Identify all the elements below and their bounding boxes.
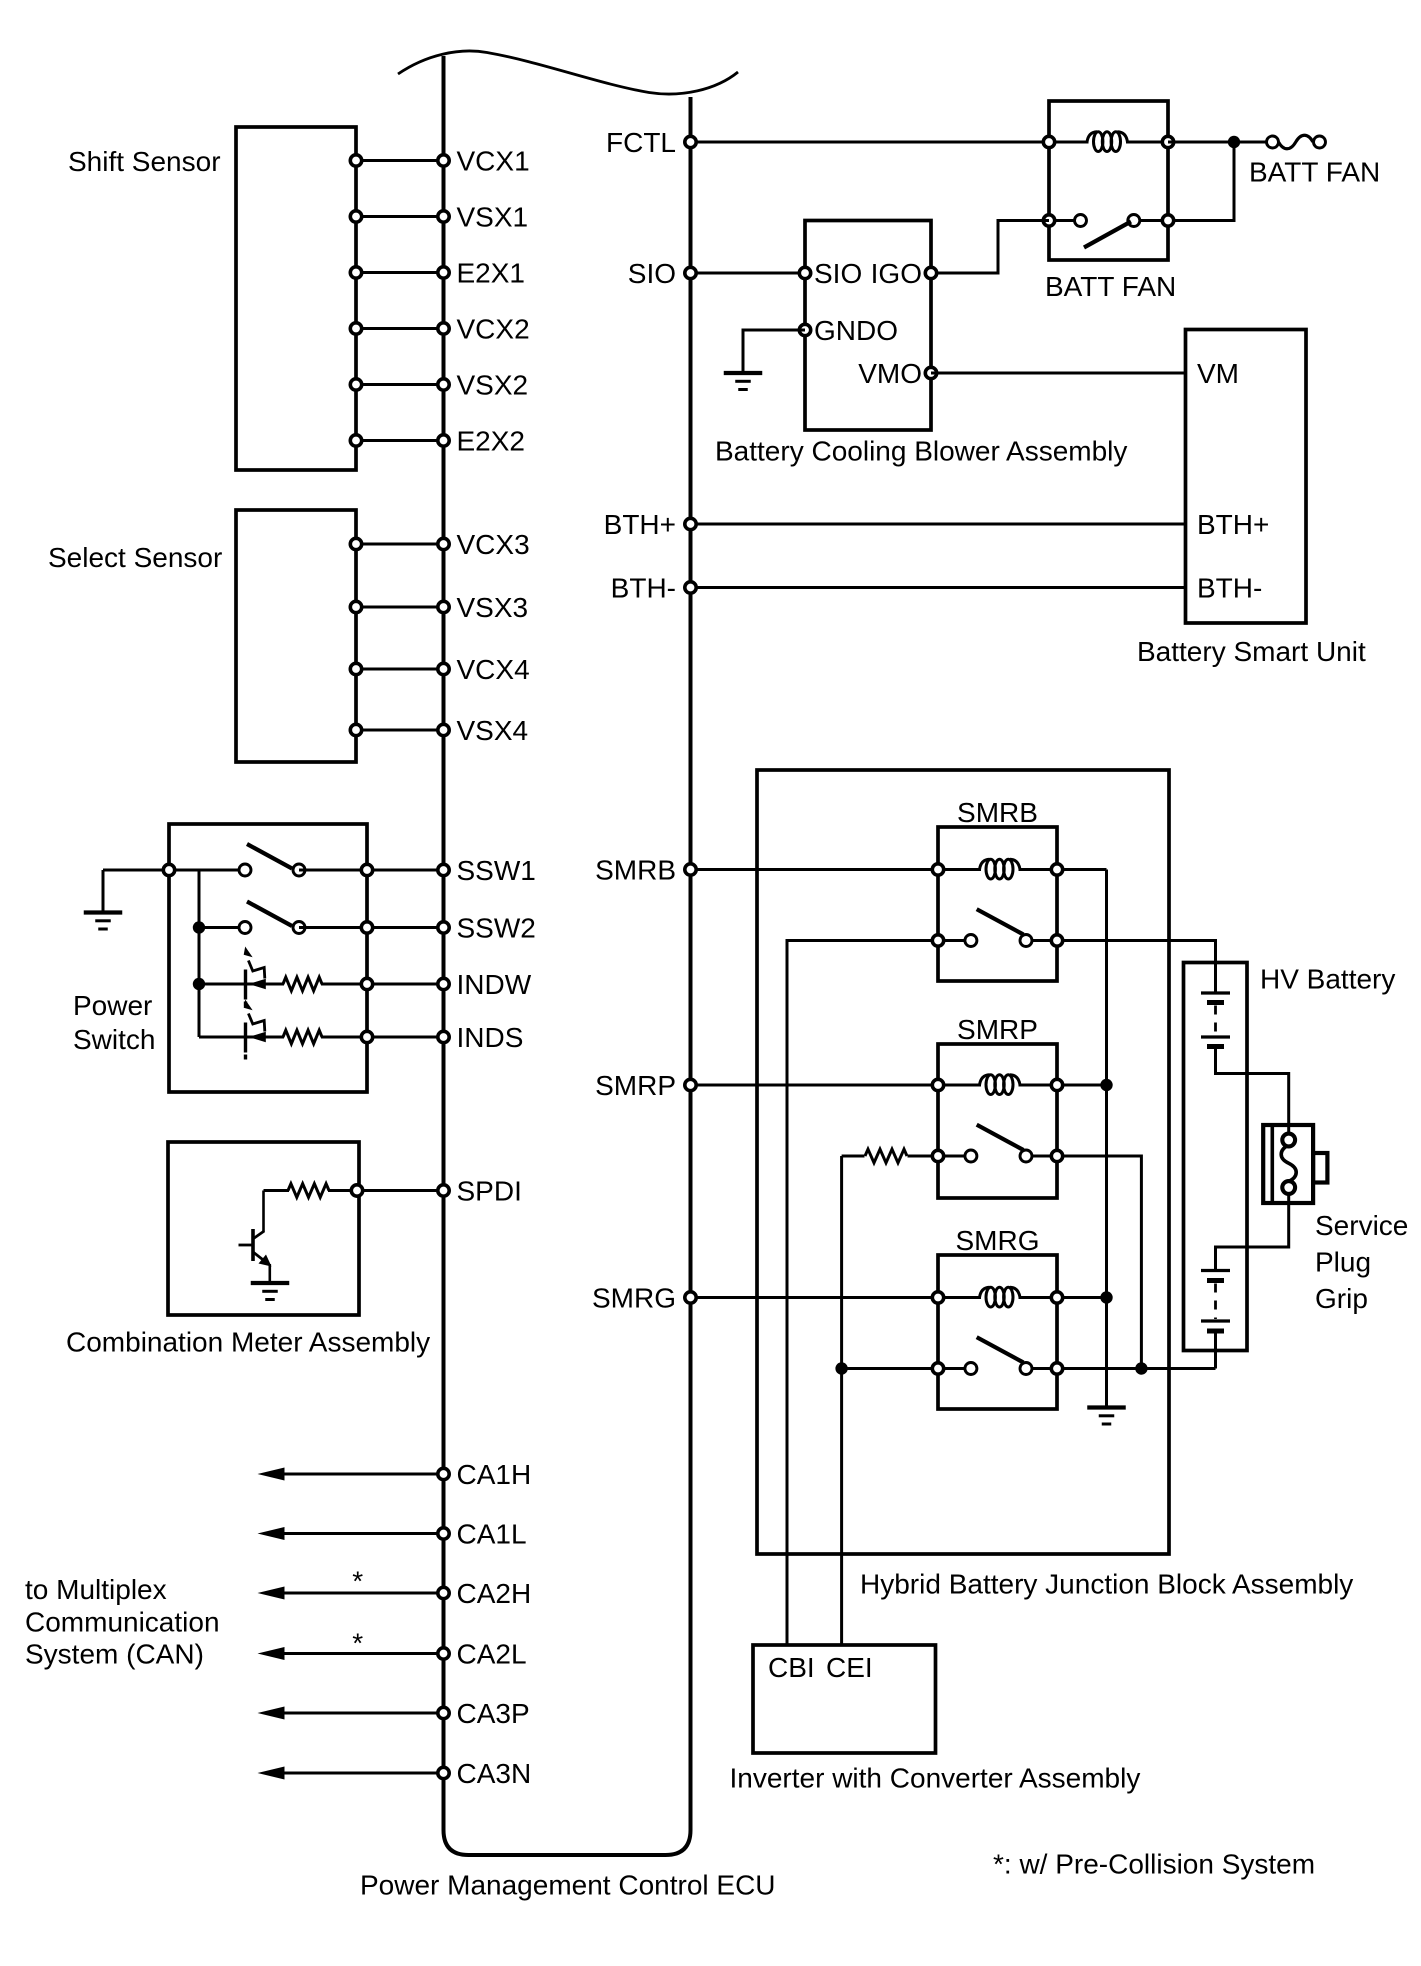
svg-text:CA1H: CA1H (457, 1459, 532, 1490)
junction dot SMRG-CEI (835, 1362, 847, 1374)
wire VSX2 from Shift Sensor to ECU (356, 383, 444, 386)
resistor on INDW row (283, 977, 322, 991)
wire VCX3 from Select Sensor to ECU (356, 543, 444, 546)
relay SMRG switch contacts (932, 1363, 943, 1374)
junction dot INDW bus (193, 978, 205, 990)
relay SMRP switch blade (977, 1125, 1024, 1150)
pin CA1H on ECU (438, 1468, 449, 1479)
svg-text:Power Management Control ECU: Power Management Control ECU (360, 1870, 776, 1901)
svg-text:VMO: VMO (858, 358, 922, 389)
svg-text:BTH+: BTH+ (604, 509, 676, 540)
wire VCX2 from Shift Sensor to ECU (356, 327, 444, 330)
wire HV battery negative riser (1214, 1333, 1217, 1369)
svg-text:E2X1: E2X1 (457, 258, 526, 289)
off-page connector BATT FAN (squiggle) (1279, 135, 1314, 149)
wire FCTL to BATT FAN relay (691, 141, 1050, 144)
svg-text:BTH-: BTH- (1197, 573, 1262, 604)
pin coil right BATT FAN relay (1162, 136, 1173, 147)
pin coil right SMRB (1051, 864, 1062, 875)
pin coil left BATT FAN relay (1043, 136, 1054, 147)
pin SSW2 on Power Switch right edge (361, 922, 372, 933)
svg-text:BTH-: BTH- (611, 573, 676, 604)
battery cells upper (HV battery) (1201, 991, 1230, 994)
wire CA2L CAN bus arrow (282, 1652, 444, 1655)
resistor in Combination Meter (288, 1184, 329, 1198)
component Battery Cooling Blower Assembly box (805, 221, 931, 431)
svg-text:INDW: INDW (457, 969, 532, 1000)
pin VCX2 on Shift Sensor (350, 323, 361, 334)
component Power Switch box (169, 824, 367, 1092)
switch S2 contacts SSW2 (239, 922, 251, 934)
wire stubs SMRB switch (938, 939, 971, 942)
pin VSX4 on Select Sensor (350, 724, 361, 735)
pin SMRB on ECU (685, 864, 696, 875)
svg-text:CA2H: CA2H (457, 1578, 532, 1609)
pin VCX1 on ECU (438, 155, 449, 166)
wire BTH+ to Battery Smart Unit (691, 523, 1186, 526)
pin VCX4 on Select Sensor (350, 663, 361, 674)
wire SMRB switch to CBI (787, 941, 938, 1646)
pin CA3P on ECU (438, 1707, 449, 1718)
wire stubs relay BATT FAN switch (1049, 219, 1081, 222)
svg-text:IGO: IGO (871, 258, 922, 289)
junction dot coil common at SMRG (1100, 1291, 1112, 1303)
svg-text:Battery Cooling Blower Assembl: Battery Cooling Blower Assembly (715, 436, 1127, 467)
svg-text:Switch: Switch (73, 1024, 155, 1055)
wire SMRG coil right to common (1057, 1296, 1107, 1299)
svg-text:VCX3: VCX3 (457, 529, 530, 560)
wire VMO to VM (931, 372, 1186, 375)
wire SMRB coil right to common (1057, 868, 1107, 871)
component Hybrid Battery Junction Block Assembly box (757, 770, 1169, 1554)
svg-text:BATT FAN: BATT FAN (1249, 157, 1380, 188)
wire INDW row (199, 983, 284, 986)
pin coil left SMRB (932, 864, 943, 875)
service plug fuse squiggle (1281, 1145, 1296, 1182)
pin GNDO on blower (799, 324, 810, 335)
component Service Plug Grip box (1263, 1125, 1313, 1203)
pin E2X1 on Shift Sensor (350, 267, 361, 278)
wire SMRP switch right to SMRG bypass (1057, 1156, 1141, 1369)
svg-text:*: * (352, 1628, 363, 1659)
pin CA2L on ECU (438, 1648, 449, 1659)
svg-text:System (CAN): System (CAN) (25, 1639, 204, 1670)
junction dot SSW2 bus (193, 921, 205, 933)
svg-text:FCTL: FCTL (606, 127, 676, 158)
svg-text:SMRP: SMRP (957, 1014, 1038, 1045)
pin VSX1 on ECU (438, 211, 449, 222)
svg-text:Combination Meter Assembly: Combination Meter Assembly (66, 1327, 430, 1358)
internal bus wire in Power Switch (198, 870, 201, 1037)
pin coil left SMRP (932, 1079, 943, 1090)
svg-text:CA1L: CA1L (457, 1519, 527, 1550)
pin SSW2 on ECU (438, 922, 449, 933)
relay SMRB switch blade (977, 909, 1024, 934)
wire battery to service plug (1216, 1047, 1289, 1142)
relay BATT FAN switch contacts (1043, 215, 1054, 226)
svg-text:VM: VM (1197, 358, 1239, 389)
wire CA2H CAN bus arrow (282, 1592, 444, 1595)
transistor Q1 in Combination Meter (262, 1191, 265, 1233)
svg-text:Power: Power (73, 990, 152, 1021)
relay SMRP switch contacts (932, 1150, 943, 1161)
svg-text:INDS: INDS (457, 1022, 524, 1053)
relay SMRB box (938, 827, 1057, 981)
svg-text:BTH+: BTH+ (1197, 509, 1269, 540)
relay SMRP coil (980, 1075, 990, 1085)
svg-text:Select Sensor: Select Sensor (48, 542, 222, 573)
wire SSW1 row inside Power Switch (103, 869, 245, 872)
wire break wave at top of ECU (398, 51, 738, 94)
indicator LED symbol INDW (244, 970, 247, 1000)
svg-text:VCX4: VCX4 (457, 654, 530, 685)
svg-text:CA2L: CA2L (457, 1639, 527, 1670)
wire SMRP coil from ECU (691, 1084, 939, 1087)
wire SPDI row (264, 1189, 290, 1192)
svg-text:Communication: Communication (25, 1607, 220, 1638)
resistor on INDS row (283, 1030, 322, 1044)
svg-text:Grip: Grip (1315, 1283, 1368, 1314)
component Battery Smart Unit box (1186, 330, 1307, 624)
svg-text:*: w/ Pre-Collision System: *: w/ Pre-Collision System (993, 1849, 1315, 1880)
svg-text:SIO: SIO (628, 258, 676, 289)
pin on Power Switch left edge (SSW1) (163, 864, 174, 875)
svg-text:BATT FAN: BATT FAN (1045, 271, 1176, 302)
ground symbol coil common (1087, 1405, 1126, 1409)
pin SSW1 on Power Switch right edge (361, 864, 372, 875)
svg-text:CA3N: CA3N (457, 1758, 532, 1789)
relay SMRG coil (980, 1287, 990, 1297)
pin VSX1 on Shift Sensor (350, 211, 361, 222)
wire stubs SMRP switch (938, 1155, 971, 1158)
pin VSX4 on ECU (438, 724, 449, 735)
service plug latch tab (1313, 1153, 1327, 1183)
pin VCX3 on Select Sensor (350, 538, 361, 549)
pin SIO on ECU (685, 267, 696, 278)
pin E2X1 on ECU (438, 267, 449, 278)
pin VSX2 on Shift Sensor (350, 379, 361, 390)
pin INDW on Power Switch right edge (361, 978, 372, 989)
wire VCX4 from Select Sensor to ECU (356, 668, 444, 671)
pin IGO on blower (925, 267, 936, 278)
wire relay switch to IGO (931, 221, 1049, 274)
wire BTH- to Battery Smart Unit (691, 586, 1186, 589)
wire CA1L CAN bus arrow (282, 1532, 444, 1535)
svg-text:SMRB: SMRB (595, 855, 676, 886)
switch S2 blade SSW2 (247, 902, 292, 927)
relay SMRG box (938, 1255, 1057, 1409)
wire service plug to lower cells (1216, 1186, 1289, 1271)
component Select Sensor box (236, 510, 356, 762)
junction dot SMRG bypass (1135, 1362, 1147, 1374)
svg-text:SSW2: SSW2 (457, 913, 536, 944)
wire INDS row (199, 1036, 284, 1039)
pin VCX3 on ECU (438, 538, 449, 549)
service plug terminal bottom (1282, 1181, 1295, 1194)
ground symbol in Combination Meter (251, 1281, 290, 1285)
pin SSW1 on ECU (438, 864, 449, 875)
pin VCX1 on Shift Sensor (350, 155, 361, 166)
pin coil right SMRP (1051, 1079, 1062, 1090)
pin SMRP on ECU (685, 1079, 696, 1090)
wire SMRB switch to HV battery positive (1057, 941, 1216, 993)
relay SMRB switch contacts (932, 935, 943, 946)
pin SIO on blower (799, 267, 810, 278)
wire SMRG coil from ECU (691, 1296, 939, 1299)
svg-text:Shift Sensor: Shift Sensor (68, 146, 221, 177)
svg-text:VSX3: VSX3 (457, 592, 529, 623)
pin SPDI on Combination Meter right edge (351, 1185, 362, 1196)
relay SMRB coil (980, 859, 990, 869)
pin VCX2 on ECU (438, 323, 449, 334)
wire stubs SMRG switch (938, 1367, 971, 1370)
switch S1 contacts SSW1 (239, 864, 251, 876)
relay SMRP box (938, 1044, 1057, 1198)
svg-text:*: * (352, 1566, 363, 1597)
pin VSX3 on ECU (438, 601, 449, 612)
pin coil left SMRG (932, 1292, 943, 1303)
precharge resistor (865, 1149, 907, 1163)
svg-text:VSX1: VSX1 (457, 202, 529, 233)
svg-text:Hybrid Battery Junction Block: Hybrid Battery Junction Block Assembly (860, 1569, 1353, 1600)
svg-text:Plug: Plug (1315, 1247, 1371, 1278)
pin CA2H on ECU (438, 1587, 449, 1598)
wire SSW2 contact to ECU (299, 926, 444, 929)
svg-text:to Multiplex: to Multiplex (25, 1574, 167, 1605)
component Inverter with Converter Assembly box (753, 1645, 936, 1753)
svg-text:E2X2: E2X2 (457, 426, 526, 457)
battery cells lower (HV battery) (1201, 1269, 1230, 1272)
wire SIO from ECU to blower (691, 272, 806, 275)
svg-text:GNDO: GNDO (814, 315, 898, 346)
wire VSX1 from Shift Sensor to ECU (356, 215, 444, 218)
svg-text:SMRP: SMRP (595, 1070, 676, 1101)
wire junction down to relay switch (1168, 142, 1234, 221)
svg-text:VSX4: VSX4 (457, 715, 529, 746)
wire SMRP coil right to common (1057, 1084, 1107, 1087)
svg-text:CEI: CEI (826, 1652, 873, 1683)
svg-text:SMRB: SMRB (957, 797, 1038, 828)
pin VSX2 on ECU (438, 379, 449, 390)
relay BATT FAN switch blade (1084, 222, 1131, 248)
ground symbol for GNDO (724, 371, 763, 375)
svg-text:SSW1: SSW1 (457, 855, 536, 886)
pin CA3N on ECU (438, 1767, 449, 1778)
wire CA3P CAN bus arrow (282, 1712, 444, 1715)
svg-text:CA3P: CA3P (457, 1698, 530, 1729)
pin SMRG on ECU (685, 1292, 696, 1303)
wire E2X2 from Shift Sensor to ECU (356, 439, 444, 442)
pin E2X2 on ECU (438, 435, 449, 446)
svg-text:SMRG: SMRG (956, 1225, 1040, 1256)
pin INDW on ECU (438, 978, 449, 989)
wire E2X1 from Shift Sensor to ECU (356, 271, 444, 274)
svg-text:Service: Service (1315, 1210, 1408, 1241)
pin FCTL on ECU (685, 136, 696, 147)
svg-text:HV Battery: HV Battery (1260, 964, 1395, 995)
switch S1 blade SSW1 (247, 844, 292, 869)
pin BTH+ on ECU (685, 518, 696, 529)
junction dot coil common at SMRP (1100, 1079, 1112, 1091)
pin INDS on ECU (438, 1031, 449, 1042)
wire VSX3 from Select Sensor to ECU (356, 606, 444, 609)
pin VMO on blower (925, 367, 936, 378)
svg-text:VCX2: VCX2 (457, 314, 530, 345)
junction dot BATT FAN feed (1228, 136, 1240, 148)
relay BATT FAN coil (1087, 132, 1097, 142)
wire VCX1 from Shift Sensor to ECU (356, 159, 444, 162)
service plug inner wall line (1271, 1127, 1275, 1201)
component Combination Meter Assembly box (168, 1142, 359, 1315)
wire CA1H CAN bus arrow (282, 1473, 444, 1476)
svg-text:SPDI: SPDI (457, 1176, 522, 1207)
svg-text:VSX2: VSX2 (457, 370, 529, 401)
relay BATT FAN box (1049, 101, 1168, 260)
wire SMRG switch right to HV battery negative (1057, 1367, 1216, 1370)
wire VSX4 from Select Sensor to ECU (356, 729, 444, 732)
component Shift Sensor box (236, 127, 356, 470)
ECU body outline (Power Management Control ECU) (444, 56, 691, 1855)
relay SMRG switch blade (977, 1337, 1024, 1362)
pin INDS on Power Switch right edge (361, 1031, 372, 1042)
indicator LED symbol INDS (244, 1023, 247, 1053)
wire SSW2 row (199, 926, 245, 929)
svg-text:Inverter with Converter Assemb: Inverter with Converter Assembly (730, 1763, 1141, 1794)
svg-text:Battery Smart Unit: Battery Smart Unit (1137, 636, 1366, 667)
coil common return wire down to ground (1105, 870, 1108, 1407)
wire SMRP switch left to resistor (908, 1155, 939, 1158)
wire SMRG switch left (842, 1367, 938, 1370)
wire coil right to junction (1168, 141, 1272, 144)
component HV Battery box (1184, 963, 1248, 1351)
wire CA3N CAN bus arrow (282, 1772, 444, 1775)
svg-text:SIO: SIO (814, 258, 862, 289)
svg-text:VCX1: VCX1 (457, 146, 530, 177)
svg-text:CBI: CBI (768, 1652, 815, 1683)
pin CA1L on ECU (438, 1528, 449, 1539)
ground symbol at Power Switch SSW1 (102, 870, 105, 911)
pin SPDI on ECU (438, 1185, 449, 1196)
service plug terminal top (1282, 1134, 1295, 1147)
wire SSW1 contact to ECU (299, 869, 444, 872)
pin E2X2 on Shift Sensor (350, 435, 361, 446)
wire GNDO to ground (743, 330, 805, 372)
pin BTH- on ECU (685, 582, 696, 593)
wire CEI riser (840, 1156, 843, 1645)
svg-text:SMRG: SMRG (592, 1283, 676, 1314)
pin coil right SMRG (1051, 1292, 1062, 1303)
wire resistor to CEI riser (842, 1155, 865, 1158)
pin VCX4 on ECU (438, 663, 449, 674)
pin VSX3 on Select Sensor (350, 601, 361, 612)
wire SMRB coil from ECU (691, 868, 939, 871)
